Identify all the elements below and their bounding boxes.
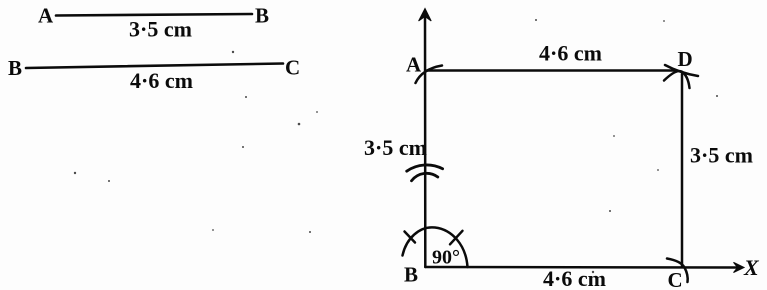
compass double arc on BA (upper)	[407, 165, 443, 171]
svg-text:B: B	[404, 263, 418, 287]
side DC (right)	[681, 74, 684, 267]
tick mark right of arc	[450, 231, 463, 245]
svg-text:X: X	[743, 255, 760, 280]
svg-text:A: A	[38, 4, 54, 28]
svg-text:C: C	[668, 268, 683, 290]
svg-text:C: C	[285, 56, 300, 80]
90-degree arc at B	[403, 227, 468, 267]
arrowhead right	[734, 262, 745, 272]
segment BC (left figure)	[26, 64, 283, 69]
compass arc at C	[667, 259, 688, 283]
svg-text:B: B	[8, 56, 22, 80]
svg-text:4·6 cm: 4·6 cm	[543, 266, 606, 290]
svg-text:4·6 cm: 4·6 cm	[130, 68, 193, 93]
svg-text:4·6 cm: 4·6 cm	[539, 41, 602, 66]
compass arc at D (horizontal stroke)	[665, 65, 698, 76]
svg-text:B: B	[255, 4, 269, 28]
compass arc at A	[416, 66, 443, 84]
tick mark left of arc	[405, 232, 416, 243]
arrowhead up	[419, 9, 432, 22]
compass arc at D (cross stroke)	[664, 71, 690, 88]
svg-text:A: A	[406, 53, 422, 77]
compass double arc on BA (lower)	[412, 173, 438, 180]
side AD (top)	[427, 69, 676, 72]
svg-text:90°: 90°	[432, 247, 460, 269]
ray B upward (vertical)	[424, 13, 427, 267]
svg-text:3·5 cm: 3·5 cm	[364, 135, 427, 160]
segment AB (top-left figure)	[56, 14, 252, 16]
svg-text:3·5 cm: 3·5 cm	[690, 143, 753, 168]
svg-text:3·5 cm: 3·5 cm	[129, 17, 192, 42]
scan speckles	[74, 19, 718, 273]
ray B to X (horizontal)	[425, 266, 737, 269]
svg-text:D: D	[678, 47, 693, 71]
